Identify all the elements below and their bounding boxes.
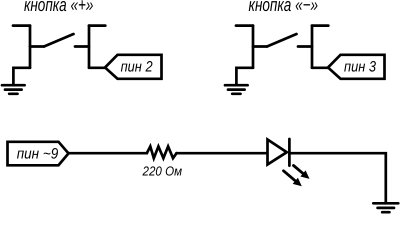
ground GND2 — [225, 85, 248, 94]
pushbutton S2 left contact mid stub — [253, 45, 267, 48]
pushbutton S2 lever — [267, 34, 297, 47]
pushbutton S1 right contact vertical — [88, 26, 91, 68]
pushbutton S1 right contact mid stub — [75, 45, 89, 48]
LED LED1 light arrow 2 — [284, 171, 302, 187]
pushbutton S1 lever — [44, 34, 74, 47]
svg-text:220 Ом: 220 Ом — [142, 163, 182, 178]
wire: pin9 flag to resistor R1 — [69, 152, 147, 155]
net label пин 3 — [328, 55, 385, 79]
wire: S1 right pin to pin2 flag — [89, 66, 105, 69]
net label пин 2 — [105, 55, 162, 79]
pushbutton S1 left contact mid stub — [30, 45, 44, 48]
LED LED1 triangle — [268, 140, 287, 165]
resistor R1 — [147, 146, 177, 158]
ground GND1 — [2, 85, 25, 94]
pushbutton S1 right contact top pin stub — [89, 24, 105, 27]
pushbutton S2 right contact mid stub — [298, 45, 312, 48]
LED LED1 light arrow 1 — [294, 166, 310, 179]
svg-text:пин ~9: пин ~9 — [17, 145, 59, 162]
pushbutton S2 left contact top pin stub — [236, 24, 253, 27]
svg-text:кнопка «+»: кнопка «+» — [24, 0, 94, 16]
wire: S1 left pin to ground — [13, 68, 30, 85]
net label пин ~9 — [8, 142, 69, 166]
wire: resistor R1 to LED1 anode — [177, 152, 267, 155]
pushbutton S1 left contact top pin stub — [13, 24, 30, 27]
pushbutton S2 right contact vertical — [311, 26, 314, 68]
LED LED1 cathode bar — [288, 139, 291, 166]
wire: LED1 cathode to ground — [289, 153, 385, 203]
svg-text:кнопка «−»: кнопка «−» — [249, 0, 319, 16]
svg-text:пин 2: пин 2 — [121, 58, 154, 75]
ground GND3 — [373, 203, 398, 212]
pushbutton S2 right contact top pin stub — [312, 24, 328, 27]
pushbutton S1 left contact vertical — [29, 26, 32, 68]
wire: S2 left pin to ground — [236, 68, 253, 85]
wire: S2 right pin to pin3 flag — [312, 66, 328, 69]
pushbutton S2 left contact vertical — [252, 26, 255, 68]
svg-text:пин 3: пин 3 — [344, 58, 377, 75]
